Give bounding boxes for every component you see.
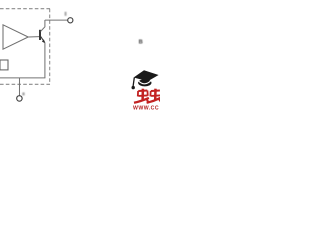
svg-text:B: B [139,40,143,46]
transistor Q1 emitter arrowhead [42,39,45,43]
pin label near bottom terminal [22,92,24,95]
dashed enclosure bottom edge [0,83,50,85]
dashed enclosure right edge [49,9,51,85]
logo graduation cap crown highlight [138,80,151,83]
transistor Q1 base bar [39,30,41,40]
op-amp U1 triangle [3,25,28,49]
pin label near top terminal [65,12,67,16]
logo tassel cord [133,78,134,87]
terminal circle top right [68,18,73,23]
wire bottom horizontal [0,77,45,79]
dashed enclosure top edge [0,8,50,10]
transistor Q1 collector lead [41,20,45,31]
transistor Q1 emitter lead with arrow [41,36,45,42]
logo character chong 2 (clipped) [147,89,161,103]
logo graduation cap board [134,70,159,81]
resistor R (box symbol) [0,60,8,70]
terminal circle bottom [17,96,23,102]
logo character chong 1 [134,89,149,103]
wire base [28,36,39,38]
logo graduation cap crown [138,79,151,86]
logo tassel knob [132,86,135,89]
wire emitter down [44,42,46,78]
wire drop to bottom terminal [19,78,21,96]
wire collector to terminal [45,19,68,21]
svg-text:WWW.CC: WWW.CC [133,105,159,110]
